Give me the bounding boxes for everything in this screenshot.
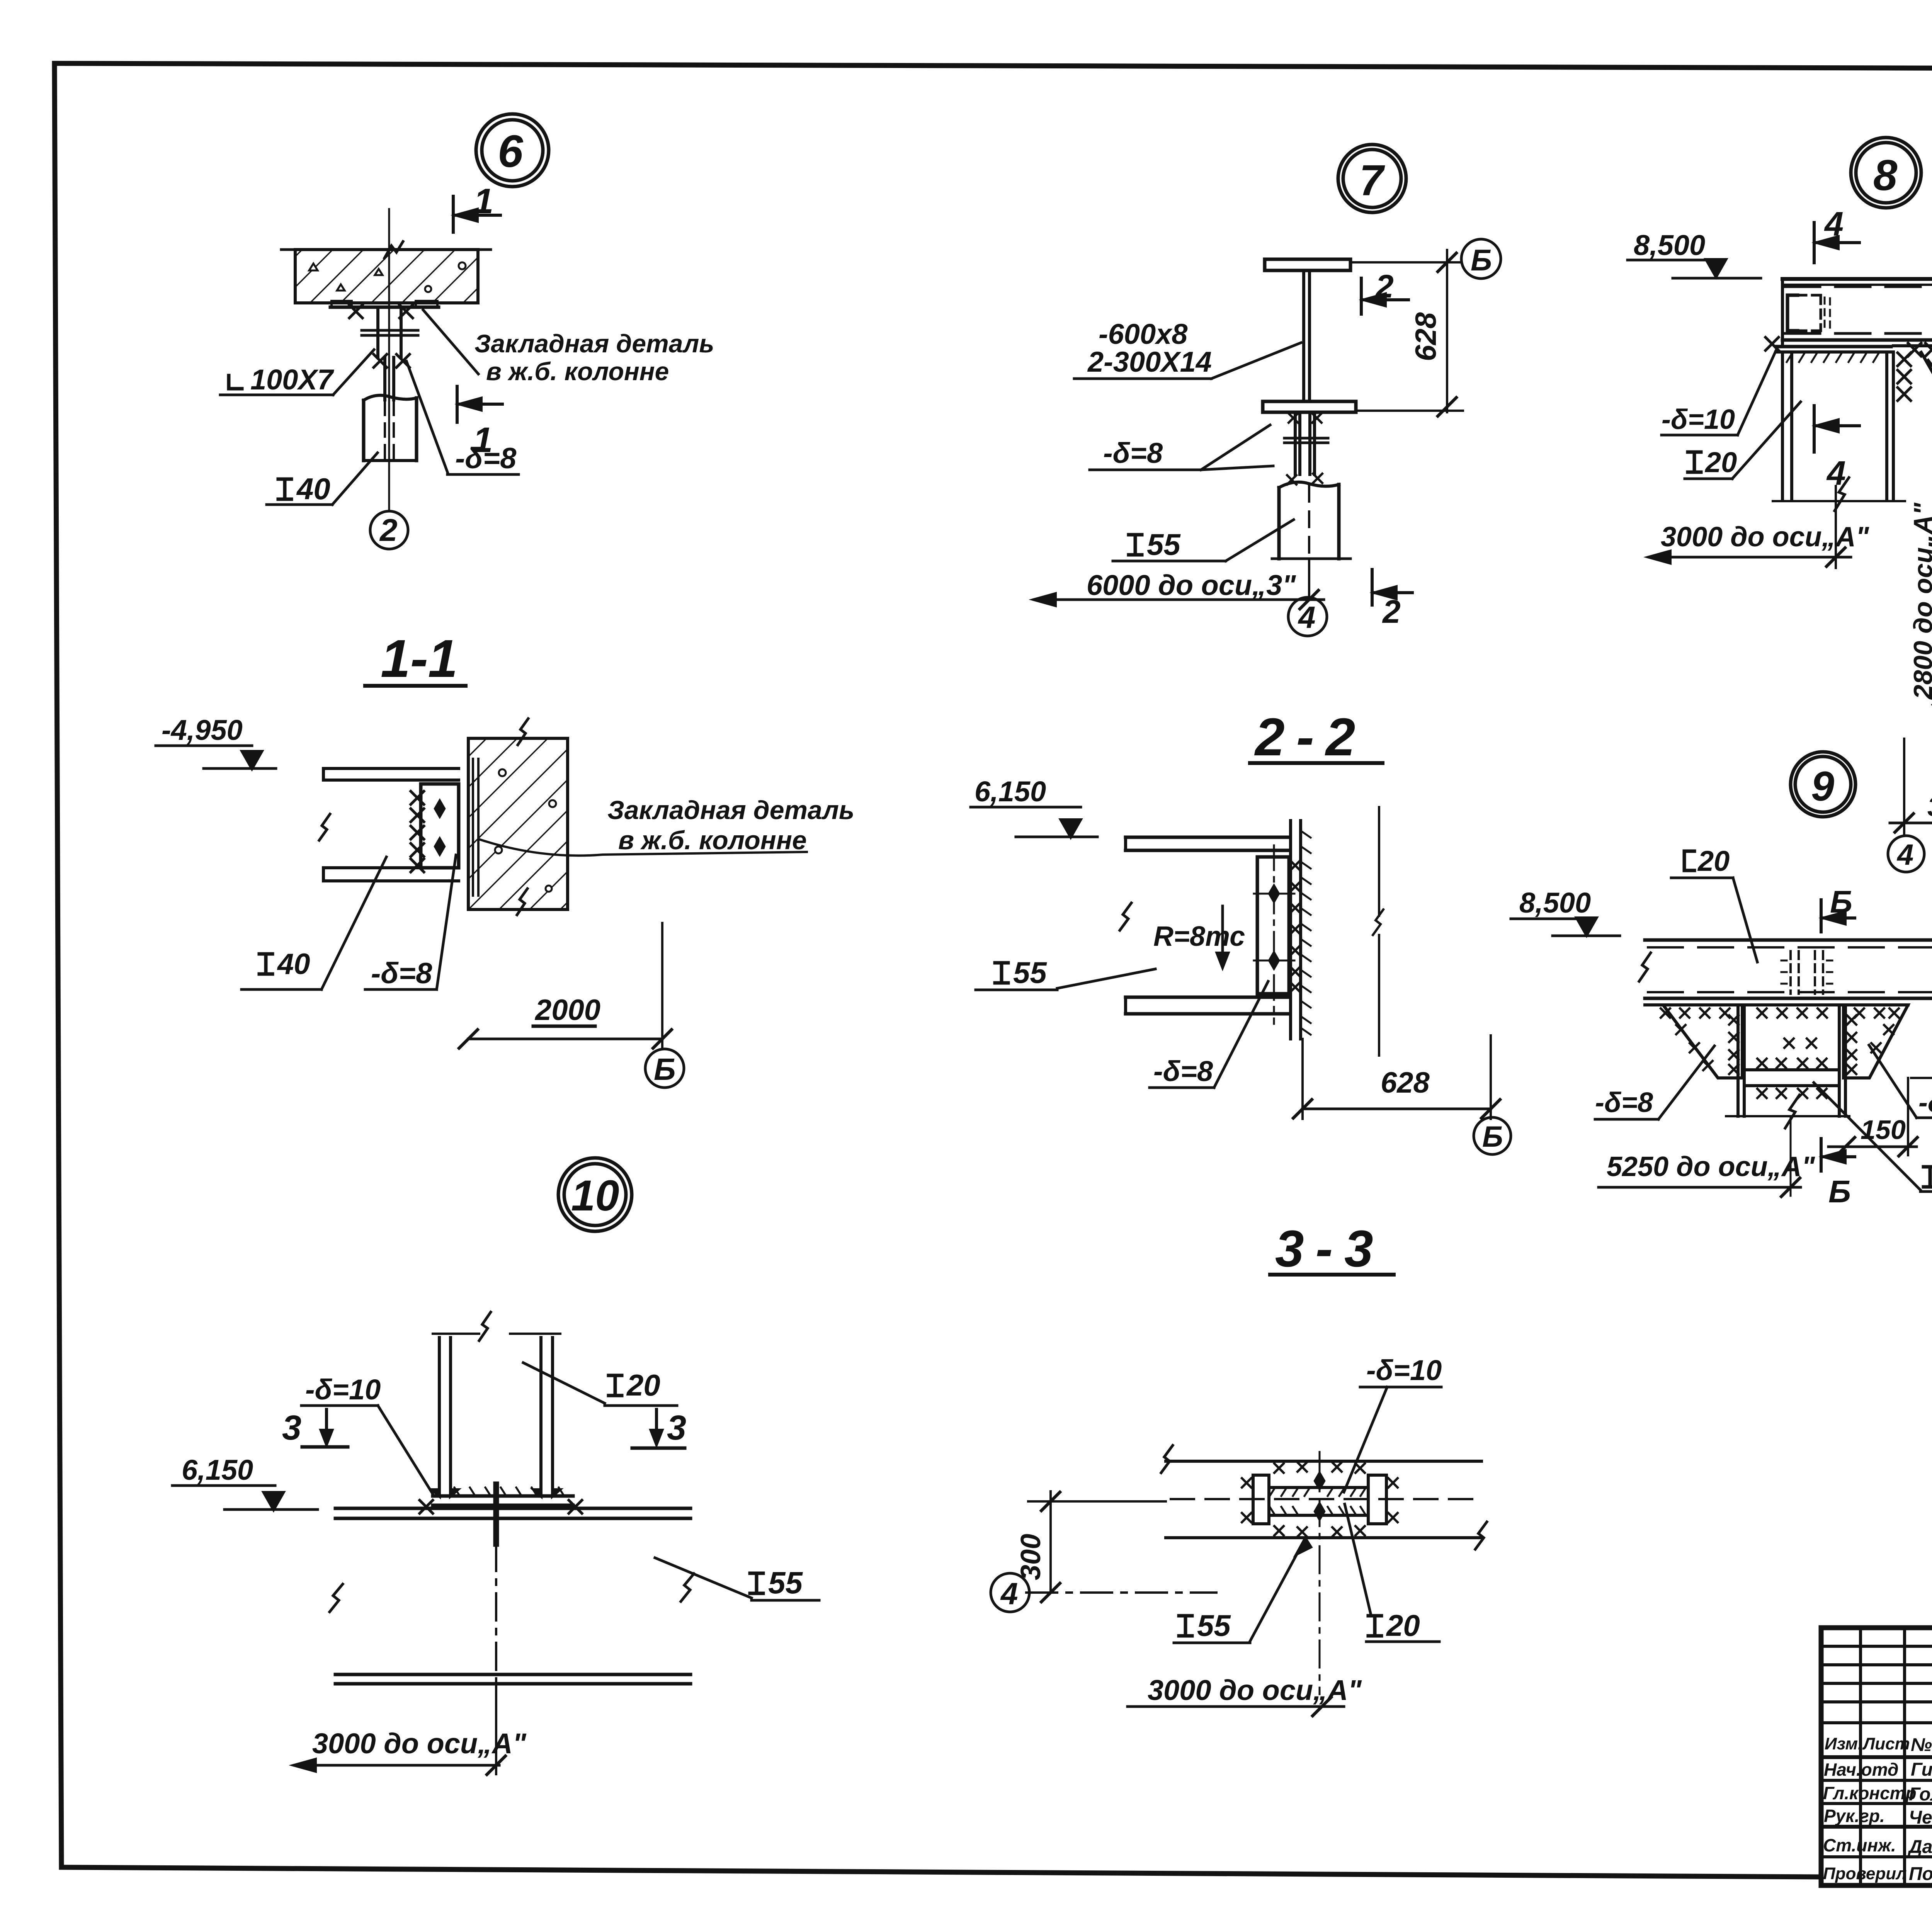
svg-text:5250 до оси„А": 5250 до оси„А" [1607, 1151, 1815, 1182]
3-3 label I20 [1368, 1616, 1381, 1636]
svg-text:в ж.б. колонне: в ж.б. колонне [618, 826, 807, 855]
node 9 bottom plate [1645, 1003, 1908, 1006]
node 8 beam C20 plan [1782, 277, 1932, 281]
svg-text:Закладная деталь: Закладная деталь [474, 329, 714, 358]
svg-text:3000 до оси„А": 3000 до оси„А" [312, 1727, 527, 1759]
svg-text:1: 1 [474, 182, 493, 221]
svg-text:2-2: 2-2 [1254, 707, 1367, 767]
node 9 splice plate in column [1744, 1068, 1839, 1071]
svg-text:628: 628 [1381, 1066, 1430, 1099]
node 8 label I20 [1688, 452, 1701, 472]
2-2 column flange [1289, 821, 1292, 1039]
title block outer box [1821, 1628, 1932, 1885]
svg-text:20: 20 [626, 1368, 660, 1402]
3-3 dim 300 left [1049, 1491, 1052, 1593]
svg-text:2: 2 [379, 513, 398, 548]
node 10 weld centre mark [493, 1484, 499, 1544]
svg-text:-δ=10: -δ=10 [1662, 404, 1735, 435]
svg-text:-δ=10: -δ=10 [305, 1374, 381, 1406]
title block column lines [1859, 1628, 1862, 1885]
node 6 embedded plate [330, 306, 439, 309]
node 6 section mark 1 bottom [456, 386, 459, 422]
node 9 left gusset [1663, 1005, 1742, 1078]
node 9 column break bottom [1726, 1115, 1849, 1117]
svg-text:6,150: 6,150 [182, 1454, 253, 1486]
node 7 dim 628 [1446, 250, 1448, 412]
node 9 beam [1645, 938, 1932, 942]
svg-text:Лист: Лист [1862, 1734, 1910, 1753]
svg-text:Закладная деталь: Закладная деталь [607, 796, 854, 825]
node 10 circle [558, 1158, 632, 1231]
1-1 grid circle B [645, 1049, 684, 1088]
node 8 section mark 4 bottom [1813, 406, 1816, 452]
svg-text:10: 10 [571, 1171, 619, 1220]
node 8 cap plate [1776, 345, 1891, 348]
svg-text:40: 40 [277, 948, 310, 981]
node 10 label I55 [750, 1573, 763, 1593]
svg-text:3: 3 [667, 1409, 686, 1447]
node 6 section mark 1 top [452, 196, 455, 232]
svg-text:8,500: 8,500 [1519, 887, 1591, 919]
svg-text:-δ=8: -δ=8 [1103, 437, 1163, 469]
svg-text:8: 8 [1873, 151, 1898, 199]
1-1 end plate [421, 784, 459, 868]
svg-text:Попова: Попова [1909, 1864, 1932, 1884]
node 7 label I55 [1129, 535, 1142, 555]
node 6 concrete slab [295, 250, 478, 303]
node 7 lower flange [1263, 401, 1356, 412]
svg-text:9: 9 [1811, 763, 1834, 809]
node 10 column I20 [438, 1338, 441, 1494]
3-3 connection I20 end view [1253, 1475, 1269, 1524]
svg-text:300: 300 [1927, 792, 1932, 822]
svg-text:4: 4 [1896, 838, 1913, 871]
node 10 beam I55 top flange [335, 1507, 690, 1510]
svg-text:55: 55 [1013, 955, 1047, 989]
2-2 beam I55 flanges [1126, 836, 1289, 839]
node 9 section mark B bottom [1820, 1139, 1823, 1171]
svg-text:3000 до оси„А": 3000 до оси„А" [1661, 522, 1869, 552]
2-2 label I55 [995, 963, 1008, 983]
node 8 circle [1851, 138, 1921, 208]
node 6 beam I40 [383, 357, 386, 400]
svg-text:-δ=8: -δ=8 [371, 957, 432, 990]
svg-text:20: 20 [1697, 845, 1730, 877]
svg-text:в ж.б. колонне: в ж.б. колонне [486, 357, 669, 386]
svg-text:55: 55 [1197, 1608, 1231, 1642]
3-3 welds around connection [1274, 1464, 1284, 1473]
node 10 beam break marks [330, 1584, 343, 1612]
5-5 grid circle 4 [1888, 836, 1924, 872]
node 9 right gusset [1844, 1005, 1908, 1078]
1-1 beam I40 flanges [323, 767, 459, 770]
svg-text:100X7: 100X7 [250, 364, 335, 396]
svg-text:3-3: 3-3 [1275, 1220, 1385, 1278]
2-2 right extension line with breaks [1378, 807, 1380, 916]
svg-text:20: 20 [1704, 446, 1737, 478]
svg-text:Рук.гр.: Рук.гр. [1824, 1806, 1885, 1826]
node 7 top flange [1265, 259, 1350, 270]
svg-text:1: 1 [473, 420, 493, 460]
svg-text:Четверикова: Четверикова [1909, 1807, 1932, 1828]
svg-text:55: 55 [768, 1566, 803, 1600]
svg-text:1-1: 1-1 [381, 629, 457, 688]
node 8 column web right [1885, 352, 1888, 500]
svg-text:-600x8: -600x8 [1099, 318, 1188, 350]
TITLEBLOCK [1821, 1628, 1932, 1885]
node 6 label L100x7 [229, 376, 242, 389]
svg-text:Ст.инж.: Ст.инж. [1823, 1835, 1896, 1855]
svg-text:4: 4 [1824, 205, 1844, 243]
svg-text:300: 300 [1015, 1534, 1046, 1580]
node 7 column I55 [1279, 482, 1339, 488]
svg-text:6: 6 [498, 126, 524, 177]
2-2 welds plate to column [1291, 861, 1300, 870]
node 8 column I20 left [1781, 352, 1784, 500]
svg-text:8,500: 8,500 [1634, 229, 1705, 261]
svg-text:-4,950: -4,950 [162, 714, 243, 746]
title block revision rows [1821, 1645, 1932, 1648]
node 7 grid circle 4 [1288, 597, 1327, 636]
node 9 column I20 [1736, 1005, 1740, 1116]
node 9 label I20 [1923, 1167, 1932, 1187]
svg-text:Гольденшлюгер: Гольденшлюгер [1909, 1784, 1932, 1805]
svg-text:2: 2 [1375, 268, 1394, 304]
svg-text:Проверил: Проверил [1823, 1864, 1906, 1883]
svg-text:2: 2 [1382, 593, 1401, 630]
node 10 label I20 [609, 1375, 622, 1396]
node 6 circle [476, 114, 549, 187]
node 8 column base line [1773, 500, 1905, 502]
3-3 grid circle 4 [991, 1573, 1029, 1612]
node 8 section mark 4 top [1813, 223, 1816, 263]
node 7 grid circle B [1461, 239, 1501, 279]
svg-text:-δ=8: -δ=8 [1595, 1087, 1653, 1118]
node 7 circle [1338, 144, 1406, 212]
svg-text:628: 628 [1410, 312, 1442, 361]
node 10 base plate [433, 1494, 573, 1498]
2-2 end plate [1257, 857, 1289, 994]
svg-text:Б: Б [654, 1052, 676, 1086]
svg-text:Нач.отд: Нач.отд [1824, 1759, 1898, 1780]
svg-text:7: 7 [1359, 156, 1385, 204]
svg-text:20: 20 [1386, 1608, 1420, 1642]
3-3 beam plan lines [1166, 1460, 1481, 1463]
node 7 section mark 2 top [1360, 278, 1363, 314]
svg-text:6,150: 6,150 [975, 775, 1046, 807]
node 6 column axis line [388, 209, 390, 511]
node 9 level 8,500 left [1577, 918, 1596, 935]
svg-text:-δ=8: -δ=8 [1153, 1055, 1213, 1087]
3-3 label I55 [1179, 1616, 1192, 1636]
svg-text:Гин: Гин [1911, 1759, 1932, 1780]
svg-text:150: 150 [1861, 1115, 1906, 1145]
node 7 web plate [1302, 270, 1305, 401]
svg-text:№докум.: №докум. [1911, 1735, 1932, 1755]
svg-text:Б: Б [1471, 243, 1492, 277]
svg-text:Б: Б [1482, 1120, 1503, 1153]
svg-text:2800 до оси„А": 2800 до оси„А" [1908, 502, 1932, 700]
svg-text:40: 40 [296, 472, 330, 506]
svg-text:Давыдова: Давыдова [1907, 1837, 1932, 1857]
2-2 grid circle B [1474, 1117, 1511, 1154]
svg-text:2000: 2000 [534, 994, 600, 1027]
svg-text:3000 до оси„А": 3000 до оси„А" [1148, 1674, 1362, 1706]
node 9 circle [1791, 752, 1855, 817]
svg-text:Изм.: Изм. [1825, 1734, 1862, 1753]
svg-text:3: 3 [282, 1409, 301, 1447]
svg-text:Б: Б [1828, 1174, 1851, 1209]
node 10 beam I55 bottom flange [335, 1673, 690, 1676]
svg-text:2-300X14: 2-300X14 [1087, 346, 1212, 378]
svg-text:4: 4 [1000, 1576, 1018, 1611]
svg-text:Гл.констр: Гл.констр [1823, 1783, 1917, 1803]
node 7 splice stubs [1294, 412, 1297, 474]
1-1 label I40 [259, 954, 272, 974]
node 9 hidden splice [1791, 951, 1823, 994]
node 8 hidden channel stiffener [1787, 295, 1798, 331]
node 10 section mark 3 right [655, 1409, 658, 1436]
svg-text:-δ=10: -δ=10 [1366, 1354, 1442, 1386]
node 6 slab aggregate marks [309, 263, 383, 291]
node 9 label C20 top [1684, 851, 1694, 870]
svg-text:55: 55 [1147, 527, 1181, 561]
node 6 angle L100x7 [376, 307, 379, 357]
node 6 label I40 [278, 479, 291, 499]
svg-text:6000 до оси„3": 6000 до оси„3" [1087, 569, 1296, 601]
node 6 grid circle 2 [370, 511, 408, 549]
1-1 concrete column [468, 738, 568, 909]
node 7 section mark 2 bottom [1371, 569, 1374, 605]
title block texts [1823, 1636, 1932, 1884]
svg-text:-δ=8: -δ=8 [1918, 1087, 1932, 1118]
svg-text:R=8тс: R=8тс [1153, 921, 1245, 952]
svg-text:4: 4 [1298, 600, 1316, 634]
